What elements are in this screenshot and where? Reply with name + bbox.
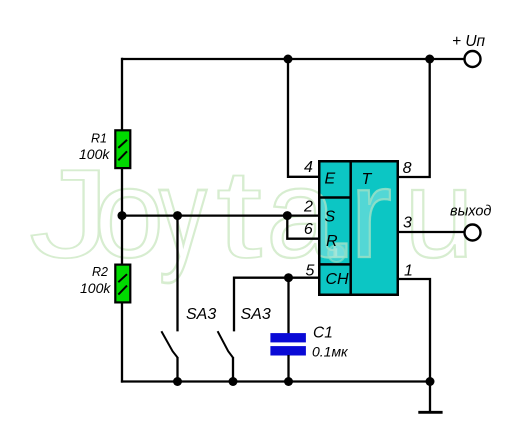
node: bottom ground xyxy=(426,377,435,386)
svg-text:C1: C1 xyxy=(313,325,333,342)
resistor R2 xyxy=(115,265,130,303)
svg-text:t: t xyxy=(216,143,262,284)
watermark period dot xyxy=(328,245,345,262)
node: top rail to pin4 xyxy=(284,55,293,64)
svg-text:8: 8 xyxy=(403,160,412,177)
svg-text:y: y xyxy=(159,143,207,284)
node: junction pin2/pin6 xyxy=(283,211,292,220)
svg-text:T: T xyxy=(362,171,373,188)
svg-text:+ Uп: + Uп xyxy=(452,33,486,50)
svg-text:R: R xyxy=(326,233,338,250)
switch SA3 #1 xyxy=(161,331,177,357)
svg-text:4: 4 xyxy=(304,159,313,176)
wire: R1 to R2 xyxy=(121,169,123,264)
wire: bottom rail xyxy=(121,380,430,382)
terminal output circle xyxy=(465,225,481,241)
wire: pin8 drop xyxy=(398,59,430,177)
svg-text:0.1мк: 0.1мк xyxy=(312,344,349,360)
ground xyxy=(418,411,442,414)
svg-text:6: 6 xyxy=(304,221,313,238)
svg-text:R1: R1 xyxy=(91,131,107,145)
resistor R1 xyxy=(115,130,130,168)
capacitor C1 xyxy=(270,333,306,342)
wire: left vertical top xyxy=(121,58,123,130)
node: junction C1 top xyxy=(284,273,293,282)
wire: top rail xyxy=(122,58,465,60)
wire: pin5 rail xyxy=(234,278,320,332)
wire: C1 bottom lead xyxy=(287,355,289,383)
svg-text:100k: 100k xyxy=(80,280,111,296)
node: bottom C1 xyxy=(284,377,293,386)
node: bottom sw1 xyxy=(173,377,182,386)
wire: pin4 drop xyxy=(288,59,320,177)
wire: pin6 drop xyxy=(287,216,319,239)
svg-text:S: S xyxy=(325,208,336,225)
watermark Joyta.ru xyxy=(29,143,474,284)
svg-text:выход: выход xyxy=(450,204,491,220)
terminal +Un circle xyxy=(465,51,481,67)
svg-text:R2: R2 xyxy=(92,265,108,279)
svg-text:2: 2 xyxy=(303,199,313,216)
wire: pin3 output xyxy=(398,231,465,233)
wire: R2 to bottom rail xyxy=(121,303,123,383)
svg-text:SA3: SA3 xyxy=(186,306,216,323)
wire: switch1 vertical xyxy=(176,216,178,332)
node: bottom sw2 xyxy=(229,377,238,386)
wire: middle rail to pin 2 xyxy=(121,214,320,216)
switch SA3 #2 xyxy=(218,331,233,357)
node: junction R1/R2 xyxy=(118,211,127,220)
op-amp/timer U1 body fill (cyan, under watermark) xyxy=(318,160,399,296)
svg-text:3: 3 xyxy=(403,215,412,232)
wire: pin1 to ground xyxy=(398,279,430,412)
svg-text:SA3: SA3 xyxy=(241,306,271,323)
U1 divider E/S xyxy=(318,196,351,199)
op-amp/timer U1 outline xyxy=(319,161,398,295)
node: junction switch1 xyxy=(173,211,182,220)
node: top rail to pin8 xyxy=(425,55,434,64)
U1 divider vertical xyxy=(349,160,352,296)
svg-text:E: E xyxy=(325,171,336,188)
svg-text:1: 1 xyxy=(404,262,413,279)
svg-text:100k: 100k xyxy=(79,146,110,162)
wire: C1 top lead xyxy=(287,278,289,334)
svg-text:5: 5 xyxy=(306,262,315,279)
op-amp/timer U1 fill damp overlay xyxy=(318,160,399,296)
U1 divider R/CH xyxy=(318,263,351,266)
svg-text:CH: CH xyxy=(326,271,350,288)
